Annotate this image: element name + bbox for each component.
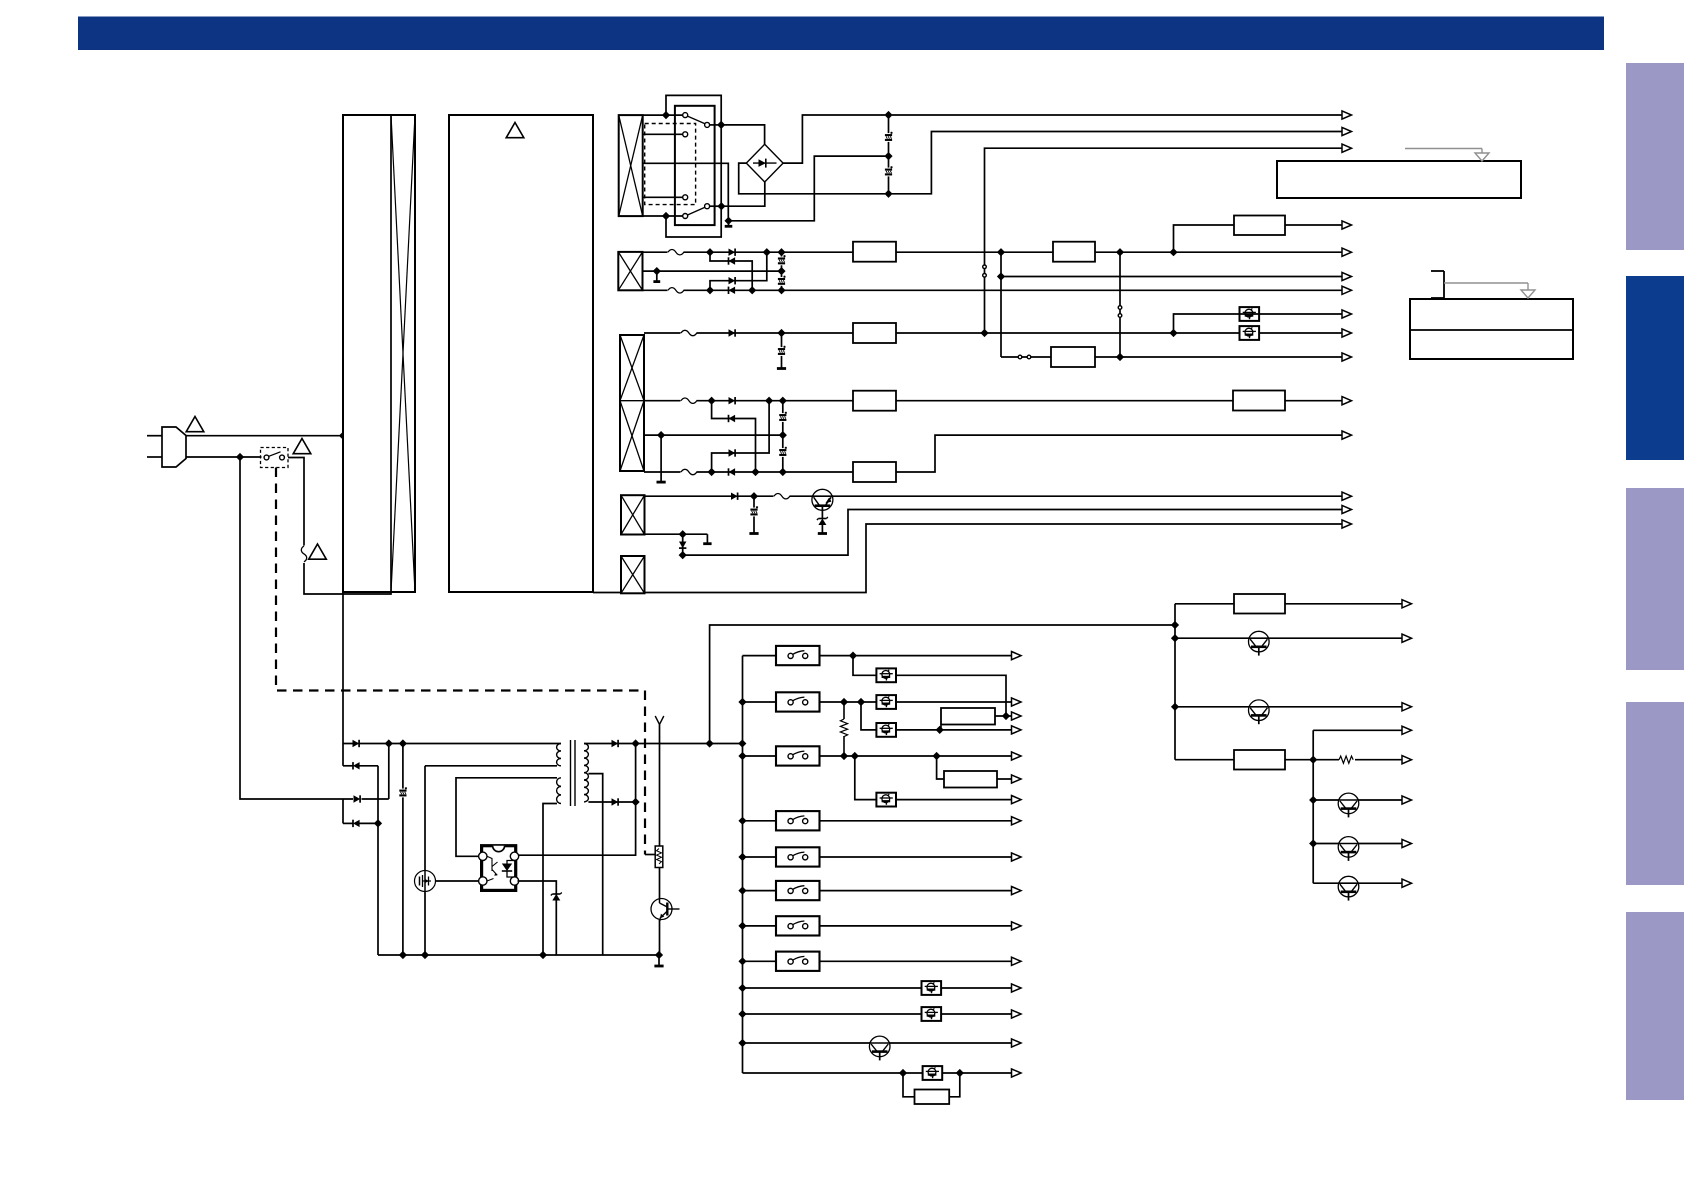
capacitor C4a [749, 507, 759, 517]
thermal fuse TF [301, 546, 307, 563]
thermostat TS7 [922, 981, 942, 995]
wire r16 loop [903, 1073, 960, 1097]
cap stack row2 wire [781, 252, 783, 290]
node y357 [1117, 354, 1124, 361]
interlock switch S4 [776, 811, 820, 830]
wire plug line2 [186, 456, 262, 458]
ground row3a [777, 365, 786, 369]
output arrow row3b [1342, 397, 1352, 405]
relay coil box (dashed) [645, 124, 696, 205]
output arrow TS1 [1342, 310, 1352, 318]
wire right dist vertical [1174, 604, 1176, 760]
wire row2 centertap [643, 270, 782, 272]
wire rail y625 [710, 625, 1175, 744]
power supply unit box [449, 115, 593, 592]
output arrow r13 [1012, 712, 1022, 720]
transistor Q6 [1338, 793, 1359, 817]
node r2h [1117, 249, 1124, 256]
node r2f [778, 287, 785, 294]
output arrow y276 [1342, 272, 1352, 280]
node r4c [679, 552, 686, 559]
wire aux d4 [343, 799, 378, 823]
relay contact K2 [683, 204, 722, 219]
resistor R2a [853, 242, 896, 262]
output arrow s6 [1012, 887, 1022, 895]
node r2a [707, 249, 714, 256]
wire dist zig [1313, 759, 1402, 761]
transformer T1 [557, 740, 589, 806]
wire dist q3 [1313, 799, 1402, 801]
output arrow ts7 [1012, 984, 1022, 992]
node sw7 rail [739, 923, 746, 930]
transistor Q3 [651, 899, 680, 922]
wire CN1 pin1 [643, 114, 683, 116]
capacitor C3a [777, 346, 787, 356]
grey pointer 1 [1405, 149, 1489, 162]
node r2 capmid [778, 268, 785, 275]
node line1-filter [340, 432, 347, 439]
node dist e [1310, 797, 1317, 804]
relay contact pin2 [683, 132, 688, 137]
node r13 out [1003, 713, 1010, 720]
callout box 2 [1410, 299, 1573, 359]
wire mosfet gate [436, 880, 480, 882]
node dist f [1310, 840, 1317, 847]
wire sw3 row [743, 755, 1012, 757]
node sw3 b [851, 753, 858, 760]
wire sec to opto [518, 744, 636, 856]
wire filter left edge drop [342, 436, 344, 744]
resistor R2b [1053, 242, 1095, 262]
sidebar tab 3 [1626, 488, 1684, 670]
warning triangle B [293, 439, 311, 454]
resistor R14 (zigzag) [839, 702, 848, 756]
wire CN1 pin2 [643, 133, 683, 135]
node dc+ cap [885, 112, 892, 119]
node relay out1 [718, 122, 725, 129]
smoothing cap stack wire [888, 115, 890, 194]
warning triangle A [186, 417, 204, 432]
diode D3a [729, 329, 736, 336]
thermostat TS4 [876, 695, 896, 709]
node ts7 rail [739, 985, 746, 992]
transistor Q8 [1338, 876, 1359, 900]
fuse F3b [681, 398, 697, 404]
node r3e [766, 397, 773, 404]
ground row3b [657, 435, 666, 482]
output arrow d1 [1402, 600, 1412, 608]
wire dist q4 [1313, 843, 1402, 845]
interlock switch S1 [776, 646, 820, 665]
node line2 [237, 454, 244, 461]
node dist b [1172, 635, 1179, 642]
cap row3 wire [781, 333, 783, 365]
interlock switch S6 [776, 881, 820, 900]
wire CN1 pin3 [643, 196, 683, 198]
node aux c [375, 820, 382, 827]
node relay ground [725, 217, 732, 224]
cap row4 wire [753, 496, 755, 533]
wire v1120 [1119, 252, 1121, 357]
optocoupler PC1 [479, 846, 519, 891]
wire sw2 row [743, 701, 1012, 703]
relay contact pin3 [683, 195, 688, 200]
wire ts8 row [743, 1013, 1012, 1015]
sidebar tab 4 [1626, 702, 1684, 885]
wire v1001 [1000, 252, 1002, 357]
wire branch R2c [1174, 225, 1343, 252]
ground rail aux [378, 954, 659, 956]
wire ts7 row [743, 987, 1012, 989]
diode D5a [353, 740, 360, 747]
diode D5d [353, 820, 360, 827]
wire relay coil return [643, 163, 728, 221]
wire row2 top [643, 251, 1343, 253]
output arrow d8 [1402, 879, 1412, 887]
connector CN5 [621, 556, 645, 593]
wire bridge dc- [739, 163, 885, 194]
page header bar [78, 17, 1604, 51]
wire y357 [1001, 356, 1342, 358]
wire ts branch1 [853, 656, 1006, 716]
node sw2 a [841, 699, 848, 706]
thermostat TS8 [922, 1007, 942, 1021]
dashed remote line [276, 468, 656, 855]
wire dc- rail [892, 132, 1342, 194]
output arrow s1 [1012, 652, 1022, 660]
output arrow AC-H [1342, 111, 1352, 119]
wire relay gnd to caps [729, 156, 886, 221]
diode D5b [353, 762, 360, 769]
wire dist q5 [1313, 882, 1402, 884]
wire opto out [518, 881, 557, 955]
wire prim2 bottom [543, 804, 557, 956]
ground row4a [749, 532, 758, 535]
fuse F2a [668, 249, 684, 255]
transistor Q9 [869, 1036, 890, 1060]
node r3c [1170, 330, 1177, 337]
output arrow d5 [1402, 756, 1412, 764]
transistor Q1 [812, 489, 833, 518]
diode D3b [729, 397, 736, 404]
connector CN3 [620, 335, 644, 471]
node sw2 rail [739, 699, 746, 706]
output arrow ts6 [1012, 796, 1022, 804]
wire psu bottom bus [593, 524, 1342, 593]
diode D4a [731, 493, 738, 500]
output arrow s4 [1012, 817, 1022, 825]
relay body [675, 106, 715, 225]
wire aux d2 [343, 744, 378, 766]
interlock switch S2 [776, 692, 820, 711]
node v1001 mid [998, 273, 1005, 280]
zener ZD2 [551, 893, 562, 901]
interlock switch S3 [776, 746, 820, 765]
wire sw7 row [743, 925, 1012, 927]
node r2b [763, 249, 770, 256]
node dist d [1310, 756, 1317, 763]
wire dist r1 [1175, 603, 1402, 605]
main power switch SW (dashed) [261, 448, 289, 468]
thermostat TS3 [876, 668, 896, 682]
output arrow d6 [1402, 796, 1412, 804]
wire v659 a [659, 725, 661, 847]
output arrow s2 [1012, 698, 1022, 706]
diode D2d [729, 287, 736, 294]
node aux d [400, 952, 407, 959]
pin marks v984 [983, 265, 987, 277]
thermostat TS1 [1240, 307, 1260, 321]
transistor Q7 [1338, 837, 1359, 861]
node aux f [540, 952, 547, 959]
resistor R3d [853, 462, 896, 482]
output arrow s3 [1012, 752, 1022, 760]
node r2e [749, 287, 756, 294]
interlock switch S7 [776, 916, 820, 935]
wire dist q [1175, 637, 1402, 639]
output arrow R2c [1342, 221, 1352, 229]
wire fuse down [304, 563, 391, 594]
wire aux d3 out [362, 798, 389, 800]
wire sec bottom [588, 801, 635, 803]
sidebar tab 2 (active) [1626, 276, 1684, 460]
wire v659 b [659, 868, 661, 899]
wire switch out [288, 458, 304, 546]
thermostat TS6 [876, 793, 896, 807]
node sw3 c [933, 753, 940, 760]
bridge rectifier DB1 [746, 144, 783, 182]
output arrow live [1342, 144, 1352, 152]
AC power plug [147, 427, 186, 467]
grey pointer 2 [1444, 283, 1535, 298]
resistor R2c [1234, 216, 1285, 236]
output arrow row2a [1342, 248, 1352, 256]
wire row2 sub1 [710, 252, 752, 290]
warning triangle C [309, 544, 327, 559]
node sw4 rail [739, 817, 746, 824]
node r2i [1170, 249, 1177, 256]
wire aux v388 [388, 744, 390, 800]
wire row3 centertap [644, 434, 783, 436]
callout box 1 [1277, 161, 1521, 198]
wire sw1 row [743, 655, 1012, 657]
capacitor C3b [778, 412, 788, 422]
wire prim1 bottom [425, 765, 557, 767]
output arrow row4a [1342, 492, 1352, 500]
thermostat TS2 [1240, 326, 1260, 340]
bracket symbol [1431, 271, 1444, 298]
output arrow row3c [1342, 431, 1352, 439]
wire relay to bridge ac1 [721, 125, 764, 144]
pin marks v1120 [1118, 306, 1122, 318]
node r3f [779, 397, 786, 404]
diode D3d [729, 449, 736, 456]
node ts8 rail [739, 1011, 746, 1018]
capacitor C5 [398, 788, 408, 798]
wire row4 bottom [645, 533, 708, 535]
diode D2b [729, 257, 736, 264]
mosfet Q2 [415, 871, 436, 892]
ground aux [654, 955, 663, 966]
node sw1 out [850, 652, 857, 659]
sidebar tab 5 [1626, 912, 1684, 1100]
output arrow ts5 [1012, 726, 1022, 734]
thermistor RT1 [655, 846, 663, 868]
output arrow row5 [1342, 520, 1352, 528]
wire ts9 row [743, 1072, 1012, 1074]
output arrow r15 [1012, 775, 1022, 783]
sidebar tab 1 [1626, 63, 1684, 250]
wire row2 bottom [643, 289, 1343, 291]
output arrow AC-N [1342, 127, 1352, 135]
resistor R2d [1051, 347, 1095, 367]
wire sw rail [742, 656, 744, 1073]
diode D4b [679, 542, 686, 549]
wire sw5 row [743, 856, 1012, 858]
node aux out2 [739, 740, 746, 747]
output arrow s7 [1012, 922, 1022, 930]
wire plug line1 [186, 435, 343, 437]
capacitor C2b [777, 276, 787, 286]
wire live sense branch [985, 148, 1343, 333]
node aux b [400, 740, 407, 747]
wire y555 to y509 [683, 510, 1342, 556]
fuse F4 [774, 493, 790, 499]
wire y276 [1001, 276, 1342, 278]
wire sw8 row [743, 960, 1012, 962]
wire relay to bridge ac2 [721, 182, 764, 206]
wire CN1 pin4 [643, 215, 683, 217]
output arrow row4b [1342, 505, 1352, 513]
output arrow d3 [1402, 703, 1412, 711]
wire sec tap [588, 774, 602, 955]
diode D3e [729, 468, 736, 475]
node dist a [1172, 622, 1179, 629]
node CN1 pin1 [663, 112, 670, 119]
wire line2 left drop [240, 457, 353, 799]
node ts9 a [900, 1070, 907, 1077]
diode D2a [729, 249, 736, 256]
output arrow row3a [1342, 329, 1352, 337]
capacitor C1 [884, 132, 894, 142]
interlock switch S8 [776, 952, 820, 971]
connector pin V [655, 716, 664, 725]
node sw8 rail [739, 958, 746, 965]
node sw5 rail [739, 854, 746, 861]
output arrow s8 [1012, 957, 1022, 965]
connector CN2 [618, 252, 642, 290]
noise filter box [343, 115, 415, 592]
node r3g [708, 469, 715, 476]
wire row3 top [644, 332, 1342, 334]
node r3 ct [658, 432, 665, 439]
ground row2 [653, 271, 660, 282]
node aux gnd [656, 952, 663, 959]
relay contact K1 [683, 113, 722, 128]
resistor R11 [1234, 750, 1285, 770]
node aux out1 [706, 740, 713, 747]
ground row4c [703, 534, 711, 544]
connector CN4 [621, 495, 645, 534]
node sw6 rail [739, 887, 746, 894]
wire mosfet source [424, 892, 426, 956]
fuse F2b [668, 287, 684, 293]
wire row3 bottom [644, 435, 1342, 472]
wire bridge dc+ [783, 115, 885, 163]
wire row3 sub2 [712, 401, 770, 472]
thermostat TS5 [876, 723, 896, 737]
resistor R10 [1234, 594, 1285, 614]
ground row4b [818, 532, 827, 535]
output arrow d4 [1402, 726, 1412, 734]
output arrow s5 [1012, 853, 1022, 861]
wire mosfet drain [424, 766, 426, 871]
diode D5c [354, 795, 361, 802]
wire row3 mid [644, 400, 1342, 402]
wire branch TS1 [1174, 314, 1343, 333]
output arrow q9 [1012, 1039, 1022, 1047]
node r3d [708, 397, 715, 404]
node r4a [751, 493, 758, 500]
wire dist v1313 [1312, 730, 1314, 883]
cap stack row3 wire [782, 401, 784, 472]
output arrow ts8 [1012, 1010, 1022, 1018]
output arrow ts9 [1012, 1069, 1022, 1077]
relay outer loop [666, 95, 721, 237]
wire row4 top [645, 495, 1343, 497]
wire q3 emitter [659, 920, 661, 956]
wire sw4 row [743, 820, 1012, 822]
node sw2 b [858, 699, 865, 706]
output arrow d2 [1402, 634, 1412, 642]
zener ZD1 [817, 517, 828, 525]
wire dc+ rail [892, 114, 1342, 116]
wire aux v378 [377, 766, 379, 955]
wire dist r2 [1175, 759, 1313, 761]
wire dist q2 [1175, 706, 1402, 708]
pin marks y357 [1018, 355, 1031, 359]
node sec b [632, 799, 639, 806]
node sw3 a [841, 753, 848, 760]
node ts5 out [936, 727, 943, 734]
node r3i [779, 469, 786, 476]
transistor Q4 [1249, 631, 1270, 655]
node r2g [998, 249, 1005, 256]
wire r15 branch [937, 756, 1012, 779]
node r4b [679, 531, 686, 538]
node dist c [1172, 703, 1179, 710]
wire dist top branch [1313, 729, 1402, 731]
transistor Q5 [1249, 700, 1270, 724]
node r3b [981, 330, 988, 337]
wire ts branch3 [855, 756, 1012, 800]
resistor R15 [944, 771, 997, 788]
node r3 capmid [779, 432, 786, 439]
node cap mid [885, 153, 892, 160]
diode D6a [612, 740, 619, 747]
wire q9 row [743, 1042, 1012, 1044]
node r3a [778, 330, 785, 337]
thermostat TS9 [923, 1066, 943, 1080]
diode D2c [729, 277, 736, 284]
resistor R3a [853, 323, 896, 343]
wire sw6 row [743, 890, 1012, 892]
node dc- cap [885, 190, 892, 197]
interlock switch S5 [776, 847, 820, 866]
node relay out2 [718, 203, 725, 210]
node aux e [422, 952, 429, 959]
resistor R3b [853, 391, 896, 411]
